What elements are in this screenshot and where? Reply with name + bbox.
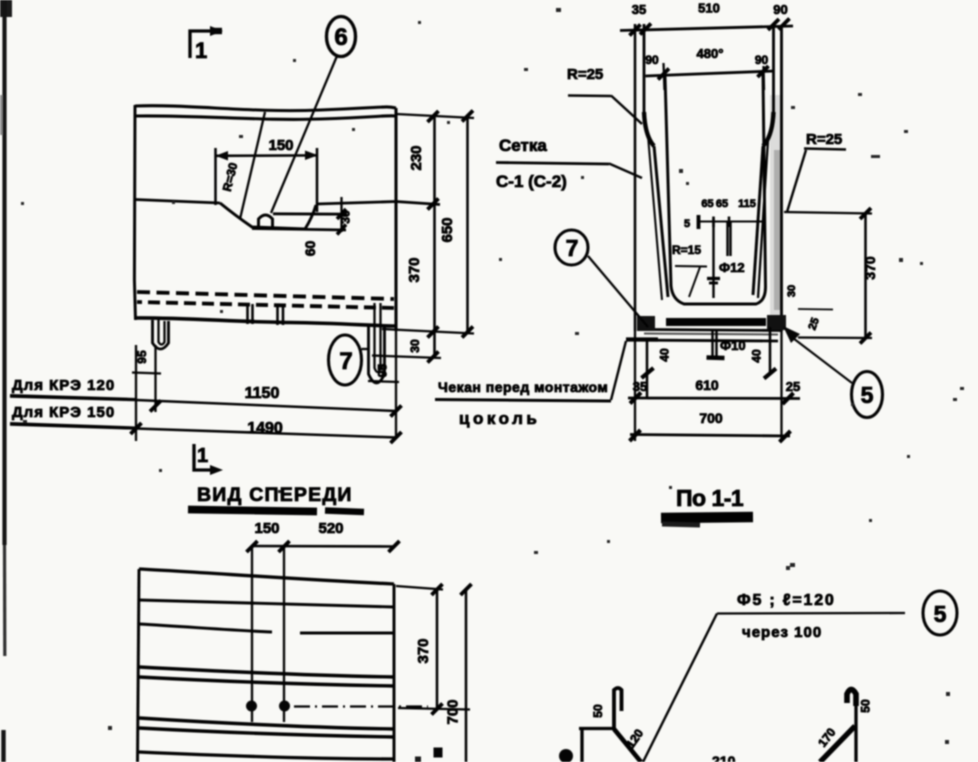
svg-text:7: 7	[339, 348, 352, 375]
dim 30 vertical (bump)	[337, 197, 353, 235]
dim 150 (notch)	[216, 137, 319, 161]
bar left: diagonal	[614, 729, 641, 762]
dim 95 left	[132, 345, 161, 441]
label Setka	[496, 136, 642, 191]
title VID SPEREDI	[188, 484, 364, 512]
panel left edge	[134, 105, 135, 320]
svg-text:90: 90	[773, 2, 787, 17]
leader diagonal down	[643, 614, 717, 762]
left wall outer slant	[654, 146, 668, 297]
callout circle 5a	[852, 372, 883, 418]
border strip left	[0, 0, 12, 762]
dim row2 (90/480/90)	[645, 46, 774, 90]
right dims: top extension	[396, 114, 474, 118]
dowel pin below floor	[707, 331, 725, 358]
svg-text:По 1-1: По 1-1	[676, 485, 744, 511]
svg-text:520: 520	[318, 520, 343, 537]
section mark 1 (top)	[190, 26, 223, 63]
svg-text:700: 700	[445, 699, 462, 724]
dim 370 (front)	[415, 584, 443, 715]
svg-text:65: 65	[701, 198, 713, 210]
bar left: vertical with hook	[614, 688, 622, 729]
dim column inner (230/370/30)	[406, 111, 439, 363]
dim line 1150	[10, 385, 402, 417]
svg-text:Чекан перед монтажом: Чекан перед монтажом	[438, 379, 608, 395]
svg-text:30: 30	[786, 285, 798, 297]
center line b	[283, 546, 285, 722]
leader to circle 6	[271, 56, 337, 213]
bar right: vertical	[854, 700, 857, 762]
svg-text:6: 6	[334, 24, 347, 51]
callout circle 7	[329, 335, 362, 385]
svg-text:R=25: R=25	[567, 66, 603, 83]
svg-text:через 100: через 100	[742, 624, 822, 641]
svg-text:40: 40	[658, 348, 672, 362]
front line 3 (broken)	[139, 624, 394, 633]
callout circle 5b	[923, 591, 957, 635]
notch outline	[216, 148, 347, 230]
inner cavity outline	[665, 74, 766, 304]
F12 bar long	[707, 218, 720, 298]
left wall inner slant (double)	[648, 136, 662, 300]
small bottom mark	[415, 757, 421, 762]
mid line left segment	[135, 200, 220, 204]
svg-text:95: 95	[376, 364, 390, 378]
right wall slant double	[758, 140, 768, 298]
svg-text:5: 5	[861, 382, 874, 408]
svg-text:5: 5	[934, 601, 947, 627]
svg-text:115: 115	[738, 198, 756, 210]
leader circle7 to hook	[362, 348, 370, 350]
right dims: ext y357	[372, 356, 441, 359]
wall shading grey right	[770, 95, 783, 320]
dim column outer (650)	[439, 111, 473, 338]
dashed joint line row1	[137, 292, 394, 299]
F12 bar short double	[728, 222, 731, 256]
leader horizontal to circle	[717, 612, 905, 615]
floor slab dark bar	[666, 318, 766, 326]
front line 5 double	[139, 718, 394, 729]
svg-text:R=25: R=25	[806, 131, 842, 148]
svg-text:1490: 1490	[247, 420, 283, 437]
svg-text:С-1 (С-2): С-1 (С-2)	[496, 172, 567, 191]
corner detail small dim	[798, 308, 833, 311]
leader R=30 line	[240, 112, 265, 219]
panel bottom edge	[135, 318, 396, 326]
svg-text:1150: 1150	[245, 385, 280, 402]
label R=25 right	[787, 131, 846, 212]
label Chekanit	[435, 379, 611, 428]
svg-text:40: 40	[750, 349, 764, 363]
svg-text:50: 50	[859, 699, 873, 713]
bottom tick blob	[434, 748, 443, 758]
svg-text:1: 1	[197, 445, 208, 467]
right wall outer slant	[753, 146, 763, 295]
mid line right segment + extension	[316, 202, 440, 205]
svg-text:Для КРЭ 120: Для КРЭ 120	[12, 377, 115, 394]
svg-text:370: 370	[862, 256, 878, 280]
svg-text:230: 230	[408, 145, 425, 170]
right ext down to 700 dim	[780, 331, 782, 441]
svg-text:150: 150	[254, 520, 279, 537]
svg-text:Ф12: Ф12	[719, 260, 745, 275]
ledge line	[273, 212, 347, 215]
svg-text:7: 7	[566, 235, 579, 261]
svg-text:Ф5 ; ℓ=120: Ф5 ; ℓ=120	[737, 592, 836, 609]
right wall outer top	[772, 24, 775, 118]
svg-text:35: 35	[632, 2, 646, 17]
base bottom grey line	[647, 398, 778, 400]
svg-text:90: 90	[645, 53, 659, 67]
dim 95 right	[368, 364, 399, 382]
svg-text:25: 25	[806, 316, 821, 332]
bar left: bottom leg	[580, 729, 583, 762]
left ext down to 700 dim	[634, 331, 636, 441]
floor bottom line 1	[650, 330, 781, 331]
svg-text:150: 150	[268, 137, 293, 154]
svg-text:65: 65	[716, 198, 728, 210]
dim row 610	[628, 377, 800, 404]
dim row 700	[630, 410, 791, 442]
front line 4 double	[139, 667, 394, 677]
dim row1 top (35/510/90)	[620, 1, 793, 36]
svg-text:50: 50	[591, 704, 605, 718]
front line 2	[139, 600, 394, 607]
dim 700 (front)	[445, 584, 472, 762]
left extension line	[634, 24, 637, 331]
ext line y709	[398, 708, 470, 710]
svg-text:610: 610	[695, 377, 719, 393]
front bottom edge	[139, 752, 394, 759]
svg-text:30: 30	[339, 210, 353, 224]
dash-dot axis line	[294, 705, 428, 707]
svg-text:480°: 480°	[697, 46, 724, 61]
front view right edge	[393, 584, 396, 762]
panel right edge	[394, 108, 397, 331]
label Dlya KR9 120	[10, 377, 136, 400]
lifting hook right	[369, 326, 385, 383]
svg-text:210: 210	[712, 753, 736, 762]
right dims: ext y331	[382, 329, 474, 334]
right extension line	[780, 28, 783, 331]
bold tick base right	[764, 369, 776, 379]
dim 370 right side	[784, 208, 878, 344]
base top line	[626, 340, 778, 341]
svg-text:370: 370	[406, 257, 423, 282]
floor bottom line 2	[644, 334, 778, 335]
svg-text:5: 5	[684, 218, 690, 230]
label R=25 left	[567, 66, 642, 124]
rebar tick pair A	[248, 304, 253, 324]
front view left edge	[138, 569, 140, 762]
svg-text:R=15: R=15	[672, 243, 701, 257]
dashed joint line row2	[137, 302, 394, 308]
svg-text:95: 95	[135, 350, 149, 364]
svg-text:Ф10: Ф10	[720, 338, 746, 353]
svg-text:25: 25	[786, 379, 800, 394]
leader circle 5a	[783, 326, 852, 383]
bar left: horizontal	[579, 727, 614, 730]
lifting hook left	[153, 320, 169, 349]
base outline verticals	[646, 338, 649, 399]
bar right: hook curl	[847, 690, 856, 707]
svg-text:R=30: R=30	[220, 161, 241, 193]
svg-text:ВИД СПЕРЕДИ: ВИД СПЕРЕДИ	[197, 484, 353, 506]
label R=15	[672, 243, 707, 297]
bar right: diagonal	[820, 726, 855, 762]
leader chekanit	[611, 340, 658, 401]
svg-text:30: 30	[408, 339, 422, 353]
lifting hook right inner	[375, 303, 381, 372]
bold tick base left	[642, 368, 654, 378]
svg-text:цоколь: цоколь	[459, 409, 540, 428]
rebar tick pair B	[278, 305, 284, 325]
floor corner block left	[637, 316, 655, 331]
front top edge	[139, 569, 394, 584]
inner labels 65 65 115	[701, 198, 756, 210]
right wall R=25 curve	[763, 112, 774, 146]
callout circle 7b	[555, 230, 588, 265]
recess pipe item6 bump	[259, 215, 273, 228]
left wall R=25 curve	[644, 112, 654, 146]
svg-text:370: 370	[415, 638, 432, 663]
svg-text:700: 700	[699, 410, 723, 426]
left wall outer top	[643, 24, 646, 118]
dim 150/520 top	[247, 520, 400, 552]
floor corner block right	[767, 315, 786, 330]
anchor dots	[246, 701, 257, 712]
title Po 1-1	[661, 485, 753, 525]
svg-text:650: 650	[439, 217, 456, 242]
dot blob left	[559, 749, 573, 762]
label Dlya KR9 150	[10, 404, 136, 428]
callout circle 6	[327, 17, 356, 57]
inner dim line	[697, 215, 764, 229]
lifting hook left inner	[159, 320, 165, 345]
panel top edge (double line)	[135, 106, 396, 111]
section mark 1 (bottom)	[194, 444, 223, 475]
svg-text:90: 90	[755, 53, 769, 67]
svg-text:Для КРЭ 150: Для КРЭ 150	[12, 404, 115, 421]
leader circle7b	[588, 256, 648, 327]
svg-text:Сетка: Сетка	[499, 136, 547, 155]
center line a	[251, 546, 253, 722]
svg-text:60: 60	[302, 241, 318, 257]
ext line y589	[396, 586, 443, 590]
svg-text:510: 510	[698, 1, 720, 16]
dim line 1490	[10, 420, 402, 443]
right edge extension down	[395, 331, 397, 439]
svg-text:1: 1	[195, 38, 207, 63]
